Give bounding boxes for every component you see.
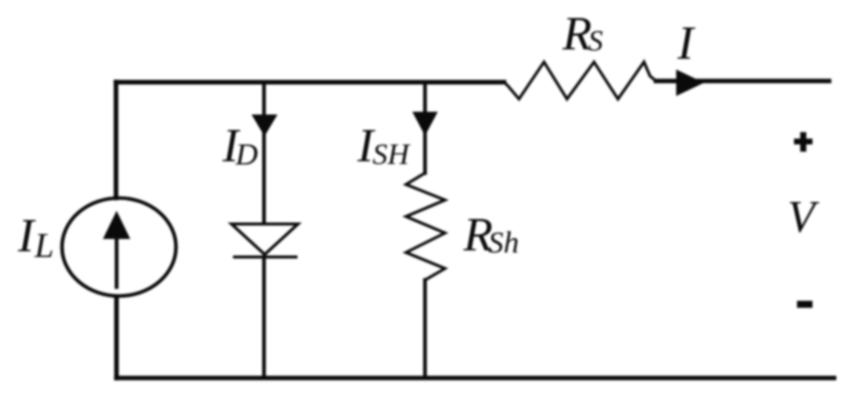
svg-text:I: I (677, 17, 696, 70)
svg-text:S: S (588, 25, 603, 58)
svg-text:L: L (34, 226, 54, 265)
svg-text:Sh: Sh (488, 225, 519, 260)
svg-text:I: I (17, 210, 36, 263)
svg-text:SH: SH (373, 138, 412, 171)
svg-text:V: V (788, 192, 820, 242)
svg-text:D: D (235, 137, 258, 172)
